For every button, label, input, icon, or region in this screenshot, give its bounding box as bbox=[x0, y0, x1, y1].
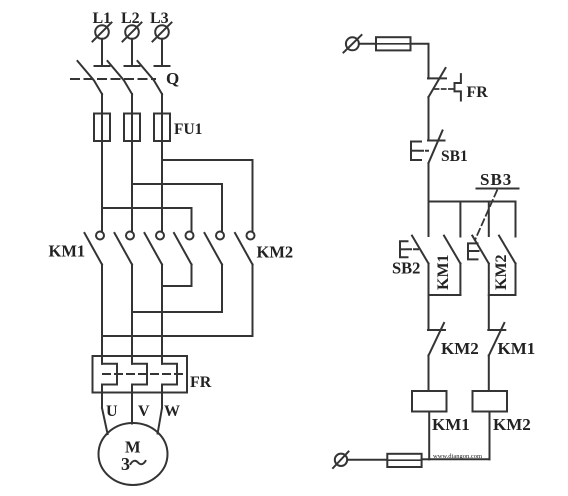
svg-text:Q: Q bbox=[166, 69, 179, 88]
wire contact1 down bbox=[101, 265, 103, 337]
svg-text:L1: L1 bbox=[93, 10, 112, 27]
wire contact c down bbox=[252, 265, 254, 337]
svg-text:KM2: KM2 bbox=[493, 254, 510, 290]
FR heater element 2 bbox=[132, 364, 147, 385]
wire fuse to FR contact bbox=[411, 44, 429, 79]
wire KM1NC to coil KM2 bbox=[488, 356, 490, 392]
wire contact a down bbox=[191, 265, 193, 287]
bottom return wire bbox=[429, 458, 489, 460]
wire V lead bbox=[131, 385, 133, 424]
wire phase2 switch to contacts bbox=[131, 94, 133, 232]
KM2 main contact b bbox=[205, 232, 225, 265]
jumper contact2 to contact b bbox=[132, 311, 222, 313]
svg-text:KM2: KM2 bbox=[257, 243, 294, 262]
jumper SB2/KM1aux bbox=[429, 294, 461, 296]
svg-text:KM2: KM2 bbox=[493, 415, 531, 434]
switch Q pole 2 bbox=[108, 61, 140, 94]
wire phaseV to FR bbox=[131, 312, 133, 364]
wire W lead bbox=[158, 385, 162, 434]
fuse FU1 element 2 bbox=[124, 114, 140, 142]
KM2 main contact a bbox=[174, 232, 194, 265]
FR NC contact bbox=[428, 68, 446, 97]
pushbutton SB2 NO bbox=[412, 236, 429, 264]
SB1 actuator E bbox=[411, 142, 428, 161]
wire phaseW to FR bbox=[161, 286, 163, 364]
contact KM1 NC interlock bbox=[488, 323, 505, 356]
wire phaseU to FR bbox=[101, 336, 103, 364]
control terminal top bbox=[344, 35, 362, 53]
terminal L3 bbox=[153, 23, 172, 42]
pushbutton SB3 NO bbox=[472, 236, 489, 264]
FR heater element 3 bbox=[162, 364, 177, 385]
drop wire to KM1 aux bbox=[459, 202, 461, 237]
svg-text:U: U bbox=[106, 403, 118, 420]
wire L3 to switch bbox=[161, 39, 163, 66]
KM1 main contact 3 bbox=[145, 232, 165, 265]
wire KM2 aux down bbox=[515, 264, 517, 296]
fuse FU2 top bbox=[376, 37, 411, 50]
branch wire phase1 to KM2 contact a bbox=[102, 208, 192, 232]
FR heater linkage dashed bbox=[103, 373, 182, 375]
thermal relay FR heater box bbox=[93, 356, 188, 393]
coil KM1 bbox=[412, 391, 447, 412]
svg-text:SB1: SB1 bbox=[441, 148, 468, 165]
KM2 main contact c bbox=[235, 232, 255, 265]
svg-text:3: 3 bbox=[121, 454, 130, 474]
branch wire phase3 to KM2 contact c bbox=[162, 160, 253, 232]
wire SB2 down bbox=[428, 264, 430, 331]
drop wire to SB3 bbox=[488, 202, 490, 237]
control terminal bottom bbox=[333, 452, 349, 469]
svg-text:FR: FR bbox=[190, 374, 212, 391]
jumper contact1 to contact c bbox=[102, 335, 253, 337]
KM1 main contact 1 bbox=[85, 232, 105, 265]
bus wire bbox=[429, 201, 516, 203]
fuse FU1 element 1 bbox=[94, 114, 110, 142]
FR heater element 1 bbox=[102, 364, 117, 385]
wire phase1 switch to contacts bbox=[101, 94, 103, 232]
jumper contact3 to contact a bbox=[162, 285, 192, 287]
wire contact b down bbox=[221, 265, 223, 313]
drop wire to SB2 bbox=[428, 202, 430, 237]
terminal L1 bbox=[93, 23, 112, 42]
svg-text:SB3: SB3 bbox=[480, 170, 512, 189]
svg-text:KM1: KM1 bbox=[498, 339, 536, 358]
wire L2 to switch bbox=[131, 39, 133, 66]
wire contact2 down bbox=[131, 265, 133, 313]
wire phase3 switch to contacts bbox=[161, 94, 163, 232]
wire L1 to switch bbox=[101, 39, 103, 66]
wire terminal to fuse bbox=[359, 43, 376, 45]
svg-text:KM1: KM1 bbox=[432, 415, 470, 434]
switch Q pole 3 bbox=[138, 61, 170, 94]
wire contact3 down bbox=[161, 265, 163, 287]
motor M bbox=[99, 423, 168, 485]
drop wire to KM2 aux bbox=[515, 202, 517, 237]
KM1 main contact 2 bbox=[115, 232, 135, 265]
jumper SB3/KM2aux bbox=[489, 294, 516, 296]
SB3 pointer line bbox=[475, 191, 497, 241]
svg-text:L3: L3 bbox=[150, 10, 169, 27]
wire coil KM2 down bbox=[489, 412, 491, 460]
SB3 actuator E bbox=[468, 243, 481, 259]
wire SB3 down bbox=[488, 264, 490, 331]
wire FR to SB1 bbox=[428, 97, 430, 141]
wire KM1 aux down bbox=[459, 264, 461, 296]
svg-text:FU1: FU1 bbox=[174, 121, 202, 138]
svg-text:L2: L2 bbox=[121, 10, 140, 27]
terminal L2 bbox=[123, 23, 142, 42]
wire SB1 to bus bbox=[428, 163, 430, 202]
contact KM2 NC interlock bbox=[428, 323, 445, 356]
wire coil KM1 down bbox=[428, 412, 430, 460]
SB2 actuator E bbox=[400, 241, 418, 257]
pushbutton SB1 NC bbox=[428, 131, 445, 164]
contact KM1 aux NO bbox=[444, 236, 460, 264]
svg-text:FR: FR bbox=[467, 84, 489, 101]
switch Q pole 1 bbox=[78, 61, 110, 94]
svg-text:KM2: KM2 bbox=[441, 339, 479, 358]
svg-text:V: V bbox=[138, 403, 150, 420]
svg-text:KM1: KM1 bbox=[435, 254, 452, 290]
contact KM2 aux NO bbox=[499, 236, 516, 264]
coil KM2 bbox=[473, 391, 508, 412]
wire fuse to terminal bottom bbox=[347, 459, 387, 461]
FR trip symbol bbox=[455, 74, 461, 100]
wire coil1 to fuse bottom bbox=[422, 458, 430, 460]
SB3 label underline bbox=[477, 188, 519, 190]
svg-text:KM1: KM1 bbox=[49, 242, 86, 261]
branch wire phase2 to KM2 contact b bbox=[132, 184, 222, 232]
FR trip linkage dashed bbox=[435, 88, 454, 90]
svg-text:W: W bbox=[164, 403, 180, 420]
svg-text:SB2: SB2 bbox=[392, 259, 420, 278]
svg-text:www.diangon.com: www.diangon.com bbox=[433, 453, 482, 460]
fuse FU1 element 3 bbox=[154, 114, 170, 142]
wire U lead bbox=[102, 385, 108, 435]
fuse FU3 bottom bbox=[387, 454, 421, 467]
switch Q linkage dashed bbox=[71, 78, 155, 80]
wire KM2NC to coil KM1 bbox=[428, 356, 430, 392]
